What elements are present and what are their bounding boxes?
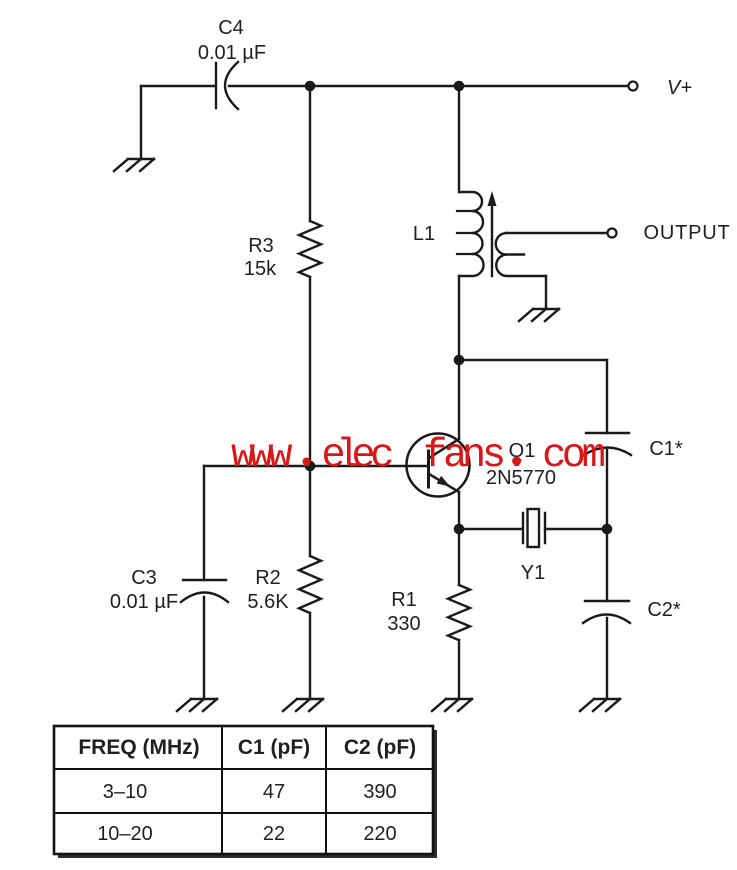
wire top rail left segment [141, 85, 215, 87]
ground (top-left) [114, 159, 154, 171]
svg-text:15k: 15k [244, 258, 277, 280]
wire C3 vertical [203, 466, 205, 580]
svg-text:R1: R1 [391, 589, 417, 611]
table FREQ/C1/C2 [54, 726, 433, 854]
svg-text:R3: R3 [248, 235, 274, 257]
node junction emitter/Y1/R1 [454, 524, 465, 535]
wire C1 bottom [606, 450, 608, 529]
wire top rail right of C4 to V+ [229, 85, 628, 87]
wire R1 bottom [458, 640, 460, 699]
resistor R2 [299, 556, 321, 613]
svg-text:V+: V+ [667, 77, 692, 99]
svg-text:47: 47 [263, 781, 285, 803]
terminal V+ [629, 82, 638, 91]
L1 primary loop ticks [457, 211, 472, 254]
wire Y1 right [545, 528, 607, 530]
ground (under C3) [177, 699, 217, 711]
wire C3 to ground [203, 597, 205, 699]
node junction Y1/C1/C2 [602, 524, 613, 535]
svg-text:10–20: 10–20 [97, 823, 153, 845]
terminal OUTPUT [608, 229, 617, 238]
watermark www.elecfans.com [231, 433, 606, 479]
crystal Y1 [523, 509, 545, 547]
svg-text:220: 220 [363, 823, 396, 845]
wire R2 top [309, 466, 311, 556]
svg-text:C3: C3 [131, 567, 157, 589]
node junction collector/C1 [454, 355, 465, 366]
wire C2 bottom [606, 618, 608, 699]
svg-text:3–10: 3–10 [103, 781, 148, 803]
svg-text:FREQ (MHz): FREQ (MHz) [78, 736, 199, 759]
node junction base/R3/R2 [305, 461, 316, 472]
inductor L1 secondary [496, 233, 546, 276]
ground (under R2) [283, 699, 323, 711]
wire branch to C1 [459, 359, 607, 361]
svg-text:R2: R2 [255, 567, 281, 589]
wire V+ rail vertical to L1 [458, 86, 460, 192]
node junction L1/V+ [454, 81, 465, 92]
capacitor C2 [583, 601, 630, 623]
capacitor C4 [216, 62, 238, 109]
svg-text:OUTPUT: OUTPUT [643, 222, 730, 244]
wire base [204, 465, 428, 467]
svg-text:0.01 µF: 0.01 µF [110, 591, 178, 613]
wire secondary to ground [545, 276, 547, 309]
ground (under R1) [432, 699, 472, 711]
table shadow [58, 730, 437, 858]
inductor L1 primary [459, 192, 484, 276]
L1 secondary loop tick [507, 253, 524, 255]
svg-text:L1: L1 [413, 223, 435, 245]
svg-text:C1 (pF): C1 (pF) [238, 736, 310, 759]
ground (under L1 secondary) [519, 309, 559, 321]
wire OUTPUT [506, 232, 607, 234]
wire R2 bottom [309, 613, 311, 699]
wire left vertical to ground [140, 86, 142, 159]
svg-text:C2 (pF): C2 (pF) [344, 736, 416, 759]
wire emitter to crystal node [458, 492, 460, 529]
capacitor C3 [181, 580, 228, 602]
wire C2 top [606, 529, 608, 601]
svg-text:330: 330 [387, 613, 420, 635]
L1 core arrow [488, 191, 497, 276]
svg-text:0.01 µF: 0.01 µF [198, 42, 266, 64]
transistor Q1 [407, 434, 470, 497]
svg-text:390: 390 [363, 781, 396, 803]
wire to Y1 left [459, 528, 522, 530]
svg-text:22: 22 [263, 823, 285, 845]
svg-text:C2*: C2* [647, 599, 681, 621]
wire L1 bottom to collector [458, 276, 460, 438]
wire R3 top [309, 86, 311, 221]
wire R1 top [458, 529, 460, 585]
resistor R1 [448, 585, 470, 640]
svg-text:C4: C4 [218, 17, 244, 39]
svg-text:C1*: C1* [649, 438, 683, 460]
ground (under C2) [580, 699, 620, 711]
node junction C4/R3 [305, 81, 316, 92]
svg-text:5.6K: 5.6K [247, 591, 289, 613]
resistor R3 [299, 221, 321, 277]
capacitor C1 [584, 433, 631, 455]
wire R3 bottom to base node [309, 277, 311, 466]
svg-text:Y1: Y1 [521, 562, 545, 584]
